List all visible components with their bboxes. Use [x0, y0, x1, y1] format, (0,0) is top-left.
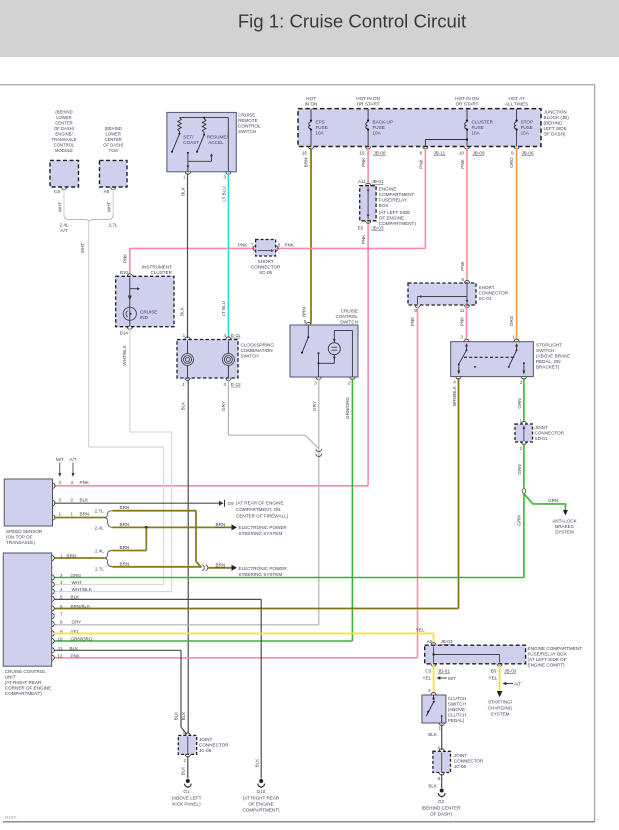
svg-text:PNK: PNK [80, 480, 90, 485]
svg-text:9: 9 [511, 151, 514, 156]
svg-text:STARTING/: STARTING/ [488, 699, 513, 704]
svg-text:SC-01: SC-01 [479, 296, 492, 301]
svg-text:ACCEL: ACCEL [208, 140, 224, 145]
svg-text:PNK: PNK [460, 260, 465, 270]
fuse STOP 15A [505, 96, 534, 156]
svg-text:8: 8 [60, 620, 63, 625]
svg-text:10A: 10A [373, 131, 382, 136]
svg-text:10A: 10A [472, 131, 481, 136]
wire PNK from CLUSTER fuse pin 8 across to instrument cluster B10 [122, 148, 425, 273]
svg-text:BRN: BRN [216, 562, 226, 567]
svg-text:(ABOVE LEFT: (ABOVE LEFT [172, 795, 202, 800]
svg-text:JB-01: JB-01 [438, 668, 450, 673]
svg-text:WHT: WHT [107, 202, 112, 213]
svg-text:COMPARTMENT, ON: COMPARTMENT, ON [236, 507, 281, 512]
svg-text:10: 10 [57, 637, 63, 642]
svg-text:GRN/ORG: GRN/ORG [345, 397, 350, 419]
svg-text:CLOCKSPRING: CLOCKSPRING [241, 342, 275, 347]
svg-text:ELECTRONIC POWER: ELECTRONIC POWER [239, 566, 288, 571]
svg-text:M/T: M/T [56, 457, 64, 462]
svg-text:3: 3 [59, 497, 62, 502]
svg-text:CENTER: CENTER [105, 137, 122, 142]
svg-text:12: 12 [57, 654, 63, 659]
svg-text:BRN/BLK: BRN/BLK [452, 385, 457, 406]
wire GRY clockspring pin 4 joining cruise switch GRY [221, 380, 319, 449]
svg-text:STEERING SYSTEM: STEERING SYSTEM [239, 572, 283, 577]
wire LT BLU remote switch pin 3 to clockspring top pin 4 [221, 173, 228, 338]
svg-text:ORG: ORG [509, 315, 514, 326]
svg-text:STOP: STOP [521, 120, 533, 125]
stoplight switch [451, 335, 571, 385]
svg-text:YEL: YEL [416, 628, 425, 633]
svg-text:IN ON: IN ON [305, 102, 318, 107]
svg-text:3: 3 [460, 335, 463, 340]
svg-text:7: 7 [60, 612, 63, 617]
wire BRN 2.4L branch with junction to electronic power steering [113, 522, 288, 536]
svg-text:OR START: OR START [357, 102, 380, 107]
ECM dashed box (behind lower center of dash) [50, 110, 79, 194]
svg-text:BLK: BLK [428, 783, 438, 788]
svg-text:3: 3 [223, 175, 226, 180]
svg-text:JB-03: JB-03 [372, 226, 384, 231]
cruise unit pin 1 brace 2.4L/2.7L [54, 545, 129, 571]
svg-text:(AT LEFT SIDE OF: (AT LEFT SIDE OF [528, 657, 567, 662]
svg-text:SWITCH: SWITCH [448, 701, 466, 706]
svg-text:A/T: A/T [514, 681, 521, 686]
svg-text:SET/: SET/ [183, 135, 194, 140]
svg-text:SD-01: SD-01 [535, 436, 548, 441]
svg-text:PNK: PNK [361, 157, 366, 167]
svg-text:CONNECTOR: CONNECTOR [454, 758, 484, 763]
svg-text:BRN: BRN [120, 505, 130, 510]
svg-text:KICK PANEL): KICK PANEL) [172, 801, 201, 806]
wire YEL cruise unit pin 9 to relay box A5 [54, 628, 434, 644]
svg-text:2.4L: 2.4L [95, 549, 104, 554]
svg-text:IND: IND [140, 315, 149, 320]
wire BLK cruise unit pin 5 to ground G10 [54, 599, 261, 778]
svg-text:8: 8 [419, 151, 422, 156]
svg-text:JB-01: JB-01 [372, 179, 384, 184]
wire WHT/BLK from B14 to cruise unit pin 4 [54, 328, 172, 591]
engine compartment fuse/relay box A11/E6 [358, 179, 417, 231]
svg-text:WHT: WHT [58, 202, 63, 213]
wire BRN 2.4L drop to cruise unit pin 1 brace [113, 527, 147, 550]
svg-text:JB-09: JB-09 [473, 151, 485, 156]
svg-text:(ABOVE BRAKE: (ABOVE BRAKE [536, 353, 570, 358]
svg-text:2: 2 [59, 480, 62, 485]
svg-text:YEL: YEL [423, 675, 432, 680]
svg-text:(AT LEFT SIDE: (AT LEFT SIDE [379, 210, 410, 215]
wire BLK JC-06 pin 5 to ground G2 [428, 774, 441, 788]
svg-text:SPEED SENSOR: SPEED SENSOR [6, 529, 43, 534]
speed sensor row BRN with brace to 2.7L/2.4L branches [54, 509, 113, 531]
svg-text:2.7L: 2.7L [95, 566, 104, 571]
svg-text:JB-06: JB-06 [522, 151, 534, 156]
svg-text:ENGINE COMPARTMENT: ENGINE COMPARTMENT [528, 646, 583, 651]
clutch switch [422, 688, 466, 731]
svg-text:CENTER: CENTER [55, 121, 72, 126]
svg-text:C3: C3 [425, 668, 431, 673]
svg-text:OR START: OR START [456, 102, 479, 107]
fuse EPS 10A [302, 96, 328, 156]
svg-text:E-12: E-12 [231, 382, 241, 387]
cruise control unit box [3, 553, 52, 696]
svg-text:BRN: BRN [120, 561, 130, 566]
svg-text:(ON TOP OF: (ON TOP OF [6, 534, 33, 539]
svg-text:BLK: BLK [428, 732, 438, 737]
svg-text:BRN: BRN [80, 511, 90, 516]
svg-text:COAST: COAST [183, 140, 199, 145]
svg-text:GRN: GRN [71, 573, 81, 578]
clockspring combination switch [177, 333, 274, 387]
svg-text:2.7L: 2.7L [109, 223, 118, 228]
svg-text:(AT RIGHT REAR: (AT RIGHT REAR [5, 680, 42, 685]
svg-text:BRN: BRN [67, 554, 77, 559]
wire PNK SC-01 pin 9 down to cruise unit pin 12 [54, 307, 418, 658]
svg-text:LT BLU: LT BLU [221, 186, 226, 201]
wire GRN stoplight pin 2 to joint connector SD-01 [517, 378, 524, 422]
svg-text:5: 5 [304, 319, 307, 324]
svg-text:BRN: BRN [216, 522, 226, 527]
wire ORG from STOP fuse pin 9 to stoplight switch pin 1 [509, 148, 516, 340]
svg-text:JC-05: JC-05 [199, 748, 212, 753]
svg-text:BLK: BLK [254, 758, 259, 768]
speed sensor [4, 479, 55, 545]
wire BLK clockspring pin 1 down to joint connector JC-05 [180, 380, 188, 734]
svg-text:CONTROL: CONTROL [336, 314, 359, 319]
svg-text:SHORT: SHORT [258, 259, 274, 264]
svg-text:CHARGING: CHARGING [488, 705, 513, 710]
svg-text:STOPLIGHT: STOPLIGHT [536, 342, 562, 347]
svg-text:OF DASH): OF DASH) [54, 126, 75, 131]
svg-text:SYSTEM: SYSTEM [491, 711, 510, 716]
svg-text:CRUISE CONTROL: CRUISE CONTROL [5, 669, 47, 674]
svg-text:BLK: BLK [173, 711, 178, 721]
instrument cluster [116, 265, 174, 336]
svg-text:CONNECTOR: CONNECTOR [251, 265, 281, 270]
svg-text:B14: B14 [120, 330, 129, 335]
svg-text:BLK: BLK [80, 497, 90, 502]
svg-text:1: 1 [183, 333, 186, 338]
svg-text:JOINT: JOINT [454, 753, 467, 758]
svg-text:TRANSAXLE): TRANSAXLE) [6, 540, 35, 545]
svg-text:G1: G1 [183, 789, 190, 794]
wire BRN from EPS fuse pin 16 to cruise control switch pin 5 [301, 148, 311, 324]
wire BRN/BLK stoplight pin 4 to cruise unit pin 6 [54, 378, 459, 609]
svg-text:FUSE: FUSE [472, 125, 484, 130]
svg-text:2: 2 [348, 381, 351, 386]
svg-text:A11: A11 [358, 179, 366, 184]
svg-text:FUSE: FUSE [316, 125, 328, 130]
svg-text:CONTROL: CONTROL [238, 123, 261, 128]
svg-text:2: 2 [428, 688, 431, 693]
svg-text:CLUTCH: CLUTCH [448, 712, 467, 717]
svg-text:2: 2 [519, 446, 522, 451]
svg-text:BRAKES: BRAKES [555, 524, 574, 529]
svg-text:HOT: HOT [306, 96, 316, 101]
svg-text:3: 3 [314, 381, 317, 386]
svg-text:CONTROL: CONTROL [54, 143, 75, 148]
fuse CLUSTER 10A [419, 96, 493, 156]
svg-text:BRN: BRN [304, 158, 309, 168]
svg-text:CENTER OF FIREWALL): CENTER OF FIREWALL) [236, 514, 289, 519]
short connector SC-06 [238, 240, 295, 276]
svg-text:OF ENGINE: OF ENGINE [379, 216, 404, 221]
svg-text:7: 7 [251, 243, 254, 248]
svg-text:GRY: GRY [312, 401, 317, 411]
svg-text:M/T: M/T [448, 676, 456, 681]
svg-text:OF ENGINE: OF ENGINE [248, 801, 273, 806]
svg-text:TRANSAXLE: TRANSAXLE [52, 137, 77, 142]
svg-text:COMBINATION: COMBINATION [241, 348, 273, 353]
svg-text:BACK-UP: BACK-UP [373, 120, 393, 125]
svg-text:(AT RIGHT REAR: (AT RIGHT REAR [243, 795, 280, 800]
svg-text:6: 6 [60, 604, 63, 609]
wire BLK JC-05 pin 2 to ground G1 [181, 756, 188, 779]
svg-text:BLK: BLK [181, 711, 186, 721]
svg-text:HOT IN ON: HOT IN ON [455, 96, 479, 101]
title bar [0, 0, 619, 57]
wire YEL B5 to starting/charging system (A/T) [488, 665, 522, 716]
svg-text:2.7L: 2.7L [95, 509, 104, 514]
svg-text:TCM: TCM [109, 148, 119, 153]
svg-text:1: 1 [438, 726, 441, 731]
svg-text:E-11: E-11 [231, 333, 241, 338]
joint connector SD-01 [515, 418, 565, 451]
cruise unit pin arcs and numbers [52, 554, 93, 661]
svg-text:GRN: GRN [548, 498, 558, 503]
svg-text:PNK: PNK [459, 316, 464, 326]
svg-text:(BEHIND: (BEHIND [55, 110, 72, 115]
wire BRN 2.7L row to half-connector and electronic power steering [113, 562, 288, 577]
svg-text:ALL TIMES: ALL TIMES [505, 102, 528, 107]
speed sensor row BLK to ground G9 [54, 497, 289, 518]
svg-text:PNK: PNK [418, 158, 423, 168]
svg-text:ENGINE/: ENGINE/ [55, 132, 73, 137]
svg-text:G9: G9 [228, 501, 235, 506]
svg-text:OF DASH): OF DASH) [103, 143, 124, 148]
M/T A/T arrows above speed sensor pins [56, 457, 77, 477]
junction block JB fuse box [298, 109, 569, 147]
svg-text:5: 5 [438, 776, 441, 781]
svg-text:G10: G10 [257, 789, 266, 794]
svg-text:A/T: A/T [61, 228, 68, 233]
svg-text:BOX: BOX [379, 203, 389, 208]
wire GRN/ORG cruise switch pin 2 to cruise unit pin 10 [54, 379, 352, 642]
wire WHT merged down to cruise unit pin 3 [54, 222, 164, 585]
svg-text:BLK: BLK [180, 401, 185, 411]
svg-text:BLK: BLK [71, 595, 81, 600]
cruise control switch [290, 308, 358, 385]
svg-text:2: 2 [520, 380, 523, 385]
svg-text:1: 1 [71, 511, 74, 516]
svg-text:1: 1 [60, 554, 63, 559]
svg-text:SWITCH: SWITCH [536, 348, 554, 353]
svg-text:REMOTE: REMOTE [238, 118, 258, 123]
svg-text:PNK: PNK [361, 234, 366, 244]
svg-text:(BEHIND: (BEHIND [105, 126, 122, 131]
svg-text:COMPARTMENT): COMPARTMENT) [242, 807, 280, 812]
svg-text:1: 1 [182, 729, 185, 734]
svg-text:1: 1 [512, 335, 515, 340]
svg-text:CORNER OF ENGINE: CORNER OF ENGINE [5, 685, 51, 690]
svg-text:MODULE: MODULE [55, 148, 73, 153]
svg-text:CLUTCH: CLUTCH [448, 696, 467, 701]
svg-text:PNK: PNK [460, 158, 465, 168]
svg-text:JB-08: JB-08 [374, 151, 386, 156]
svg-text:JB-03: JB-03 [504, 668, 516, 673]
svg-text:GRN: GRN [517, 515, 522, 525]
svg-text:B10: B10 [120, 270, 129, 275]
svg-text:OF DASH): OF DASH) [544, 132, 566, 137]
svg-text:RESUME/: RESUME/ [207, 135, 229, 140]
svg-text:FUSE/RELAY BOX: FUSE/RELAY BOX [528, 651, 567, 656]
svg-text:JC-06: JC-06 [454, 764, 467, 769]
svg-text:ELECTRONIC POWER: ELECTRONIC POWER [239, 525, 288, 530]
svg-text:(BEHIND: (BEHIND [544, 121, 564, 126]
svg-text:SWITCH: SWITCH [241, 353, 259, 358]
svg-text:CLUSTER: CLUSTER [151, 270, 173, 275]
svg-text:FUSE/RELAY: FUSE/RELAY [379, 198, 407, 203]
svg-text:BLOCK (JB): BLOCK (JB) [544, 115, 570, 120]
svg-text:4: 4 [223, 333, 226, 338]
svg-text:ANTI-LOCK: ANTI-LOCK [552, 519, 577, 524]
svg-text:E6: E6 [358, 226, 364, 231]
svg-text:G2: G2 [438, 799, 445, 804]
svg-text:JOINT: JOINT [535, 425, 548, 430]
svg-text:C5: C5 [54, 189, 60, 194]
wire GRY cruise switch pin 3 to cruise unit pin 8 (with inline connector) [54, 379, 322, 625]
wire BLK clutch switch to JC-06 [428, 725, 441, 750]
svg-text:HOT IN ON: HOT IN ON [356, 96, 380, 101]
svg-text:A/T: A/T [69, 457, 76, 462]
svg-text:YEL: YEL [489, 675, 498, 680]
svg-text:GRY: GRY [221, 401, 226, 411]
svg-text:4: 4 [60, 587, 63, 592]
svg-text:BRN/BLK: BRN/BLK [71, 604, 92, 609]
svg-text:CONNECTOR: CONNECTOR [535, 430, 565, 435]
svg-text:SWITCH: SWITCH [340, 319, 358, 324]
svg-text:BLK: BLK [181, 766, 186, 776]
svg-text:3: 3 [71, 480, 74, 485]
TCM dashed box [100, 126, 128, 194]
svg-text:Fig 1: Cruise Control Circuit: Fig 1: Cruise Control Circuit [238, 11, 467, 32]
svg-text:SC-06: SC-06 [259, 270, 272, 275]
wire BLK remote switch pin 1 to clockspring top pin 1 [179, 173, 187, 338]
svg-text:JUNCTION: JUNCTION [544, 110, 567, 115]
svg-text:2.4L: 2.4L [95, 526, 104, 531]
svg-text:PNK: PNK [285, 243, 295, 248]
svg-text:HOT AT: HOT AT [509, 96, 525, 101]
svg-text:SYSTEM: SYSTEM [555, 530, 574, 535]
svg-text:UNIT: UNIT [5, 674, 16, 679]
svg-text:BRACKET): BRACKET) [536, 364, 560, 369]
cruise remote control switch [167, 112, 261, 179]
svg-text:PNK: PNK [410, 316, 415, 326]
svg-text:BLK: BLK [181, 186, 186, 196]
svg-text:3: 3 [60, 580, 63, 585]
wire BRN 2.7L branch down to EPS half-connector [113, 505, 202, 567]
svg-text:COMPARTMENT): COMPARTMENT) [5, 691, 43, 696]
svg-text:WHT/BLK: WHT/BLK [122, 344, 127, 365]
svg-text:PEDAL, ON: PEDAL, ON [536, 359, 561, 364]
wire YEL C3 to clutch switch (M/T) [423, 665, 457, 694]
svg-text:2: 2 [60, 573, 63, 578]
svg-text:2: 2 [71, 497, 74, 502]
svg-text:CONNECTOR: CONNECTOR [479, 290, 509, 295]
svg-text:CONNECTOR: CONNECTOR [199, 742, 229, 747]
svg-text:10A: 10A [316, 131, 325, 136]
svg-text:ENGINE COMPT): ENGINE COMPT) [528, 662, 565, 667]
svg-text:COMPARTMENT): COMPARTMENT) [379, 221, 417, 226]
svg-text:15A: 15A [521, 131, 530, 136]
svg-text:CRUISE: CRUISE [140, 310, 157, 315]
wire PNK from CLUSTER fuse pin 10 to short connector SC-01 [460, 148, 467, 282]
svg-text:JB-03: JB-03 [441, 639, 453, 644]
svg-text:LEFT SIDE: LEFT SIDE [544, 126, 567, 131]
svg-text:4: 4 [453, 380, 456, 385]
svg-text:LOWER: LOWER [106, 132, 121, 137]
svg-text:COMPARTMENT: COMPARTMENT [379, 192, 415, 197]
svg-text:1: 1 [182, 382, 185, 387]
svg-text:6: 6 [461, 277, 464, 282]
svg-text:CRUISE: CRUISE [341, 308, 358, 313]
svg-text:A6: A6 [104, 189, 110, 194]
engine compartment fuse/relay box A5/C3/B5 [425, 639, 582, 673]
svg-text:10: 10 [459, 151, 465, 156]
svg-text:CLUSTER: CLUSTER [472, 120, 494, 125]
svg-text:STEERING SYSTEM: STEERING SYSTEM [239, 531, 283, 536]
ground G2 [421, 789, 461, 817]
svg-text:PNK: PNK [71, 654, 81, 659]
svg-text:2: 2 [183, 758, 186, 763]
svg-text:5: 5 [60, 595, 63, 600]
svg-text:JB-11: JB-11 [434, 151, 446, 156]
svg-text:B5: B5 [491, 668, 497, 673]
svg-text:GRY: GRY [72, 620, 82, 625]
svg-text:PNK: PNK [238, 243, 248, 248]
joint connector JC-06 [433, 746, 484, 781]
svg-text:EPS: EPS [316, 120, 325, 125]
svg-text:WHT: WHT [72, 580, 83, 585]
svg-text:WHT: WHT [80, 243, 85, 254]
ground G1 [172, 779, 202, 806]
GRN branch arrow to anti-lock brakes system [524, 494, 578, 535]
svg-text:11: 11 [460, 308, 465, 313]
svg-text:BRN: BRN [120, 522, 130, 527]
svg-text:JOINT: JOINT [199, 737, 212, 742]
svg-text:GRN: GRN [517, 464, 522, 474]
svg-text:4: 4 [223, 382, 226, 387]
joint connector JC-05 [178, 729, 229, 763]
svg-text:BLK: BLK [179, 306, 184, 316]
svg-text:SHORT: SHORT [479, 285, 495, 290]
svg-text:LT BLU: LT BLU [221, 301, 226, 316]
svg-text:(BEHIND CENTER: (BEHIND CENTER [421, 805, 461, 810]
svg-text:WHT/BLK: WHT/BLK [72, 587, 93, 592]
fuse BACK-UP 10A [356, 96, 393, 156]
svg-text:(AT REAR OF ENGINE: (AT REAR OF ENGINE [236, 501, 284, 506]
wire PNK SC-01 pin 11 to stoplight switch pin 3 [459, 307, 466, 341]
svg-text:ENGINE: ENGINE [379, 187, 397, 192]
speed sensor row PNK labels [59, 480, 90, 485]
svg-text:BRN: BRN [301, 307, 306, 317]
svg-text:GRN: GRN [517, 398, 522, 408]
svg-text:15: 15 [359, 151, 365, 156]
svg-text:FUSE: FUSE [373, 125, 385, 130]
ground G10 [242, 779, 280, 812]
svg-text:(ABOVE: (ABOVE [448, 707, 465, 712]
